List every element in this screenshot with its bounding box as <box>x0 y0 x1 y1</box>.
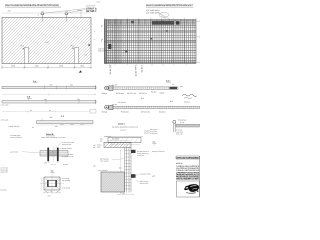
bottom small dimension <box>117 192 133 195</box>
svg-text:L=6: L=6 <box>46 41 49 44</box>
square detail dimensions <box>41 177 61 198</box>
logo sketch (eagle) <box>184 184 199 193</box>
squiggle sketch right of A-A <box>180 85 197 99</box>
square base plate detail <box>40 174 64 195</box>
mullion right annotation lower <box>136 172 151 184</box>
section band 2-C labels <box>1 115 65 128</box>
svg-text:84xxd: 84xxd <box>160 92 165 95</box>
Detail C label block <box>112 122 139 131</box>
dimension line under 2-A <box>2 93 96 95</box>
label 2-2 small <box>153 141 157 146</box>
anchor bolt detail right <box>173 118 200 132</box>
svg-text:PL1: PL1 <box>21 44 24 47</box>
svg-text:1650: 1650 <box>80 65 84 68</box>
vertical mullion column <box>125 147 136 192</box>
section A-A band <box>105 83 178 91</box>
anchor bolt annotations <box>150 128 183 135</box>
section band 2-C <box>32 118 93 129</box>
svg-text:scale panel mounting to concre: scale panel mounting to concrete <box>41 136 66 139</box>
grid bottom dark band <box>105 58 197 63</box>
dark infill cells top right <box>131 21 180 25</box>
scattered dark cells <box>108 30 168 52</box>
svg-text:84TGLS fix: 84TGLS fix <box>127 92 136 95</box>
grid left dark column <box>105 20 107 64</box>
small text left of title block <box>152 150 165 177</box>
svg-text:84TGD st: 84TGD st <box>139 92 147 95</box>
grid dense left zone <box>105 20 122 64</box>
svg-text:PL2: PL2 <box>71 44 74 47</box>
svg-text:NOTES:: NOTES: <box>176 162 183 165</box>
title left drawing <box>5 4 61 7</box>
svg-text:450: 450 <box>70 83 73 86</box>
svg-text:150: 150 <box>44 162 47 165</box>
svg-text:SETUP-1: SETUP-1 <box>86 10 97 13</box>
vertical dimension line left of column <box>120 149 121 193</box>
square base detail top dims <box>44 162 96 168</box>
left notes bottom-left <box>1 167 9 192</box>
svg-text:450: 450 <box>44 98 47 101</box>
center annotation in elevation <box>46 41 88 57</box>
Detail B label <box>41 133 66 139</box>
bracket detail 1 above elevation <box>41 12 44 18</box>
svg-text:450: 450 <box>77 98 80 101</box>
title right drawing <box>146 4 194 7</box>
slot right (post) <box>71 44 79 63</box>
svg-text:BAHA CACHA WINDOW SCREEN DETAI: BAHA CACHA WINDOW SCREEN DETAIL TYPE P-1… <box>146 4 194 7</box>
svg-text:450: 450 <box>50 116 53 119</box>
svg-text:WLxxx: WLxxx <box>151 90 156 93</box>
section marker flag upper <box>101 25 103 29</box>
svg-text:2250: 2250 <box>11 65 15 68</box>
slot left (post) <box>21 44 29 63</box>
notes lines <box>176 165 200 181</box>
Detail B assembly <box>40 146 68 163</box>
svg-text:BAHA CACHA UNIT 04 SCREEN: BAHA CACHA UNIT 04 SCREEN <box>177 157 200 160</box>
Detail C bar <box>100 136 143 144</box>
section band 2-B <box>1 98 97 107</box>
svg-text:150: 150 <box>48 195 51 198</box>
svg-text:450typ: 450typ <box>102 111 107 114</box>
north-arrow mark below elevation <box>79 70 82 72</box>
revision cloud <box>159 12 169 17</box>
right edge marks of elevation <box>88 30 95 46</box>
label 1-1 <box>51 170 55 173</box>
svg-text:84c: 84c <box>119 167 122 170</box>
svg-text:2-C: 2-C <box>61 115 65 118</box>
svg-text:1=6: 1=6 <box>84 54 87 57</box>
grid mid darker row <box>105 32 197 51</box>
square detail annotations right <box>57 177 70 189</box>
section marker flag lower <box>101 39 103 43</box>
section band 2-A label <box>33 80 38 83</box>
svg-text:~L: ~L <box>94 30 96 33</box>
label 1-1 below A-A <box>141 97 144 100</box>
grid top ticks <box>105 18 197 20</box>
svg-text:L angle (45.00): L angle (45.00) <box>8 125 20 128</box>
svg-text:750: 750 <box>8 10 11 13</box>
rotated labels below grid <box>109 64 144 77</box>
svg-text:BAHA CACHA WINDOW SCREEN INSTA: BAHA CACHA WINDOW SCREEN INSTALLATION DE… <box>5 4 59 7</box>
logo box <box>177 156 200 197</box>
svg-text:GL 84 TYP: GL 84 TYP <box>109 64 112 75</box>
left elevation panel (hatched wall) <box>2 18 91 64</box>
svg-text:1-1: 1-1 <box>141 97 144 100</box>
grid left annotation <box>98 47 107 52</box>
Detail B annotation right <box>54 141 96 158</box>
svg-text:2-1: 2-1 <box>170 100 173 103</box>
svg-text:7: 7 <box>101 25 103 29</box>
bottom dimension line of elevation <box>1 65 92 69</box>
top-right bold label block <box>86 1 101 13</box>
svg-text:84TGLS fix: 84TGLS fix <box>141 111 150 114</box>
section band 2-B label <box>27 96 32 101</box>
beam left annotation <box>97 143 102 148</box>
dimension line above left elevation <box>2 10 91 16</box>
bracket detail 2 above elevation <box>65 12 68 18</box>
texts below section A-A <box>102 90 165 95</box>
svg-text:P4Ta brkt: P4Ta brkt <box>121 111 129 114</box>
title block header bar <box>176 156 200 160</box>
section B-B band <box>105 100 200 110</box>
svg-text:DWG NO A-584-04 REV C SHEET 4: DWG NO A-584-04 REV C SHEET 4 <box>176 178 200 181</box>
svg-text:Detail C: Detail C <box>118 122 126 125</box>
grid right edge marks <box>197 20 200 64</box>
notes heading <box>176 162 183 165</box>
svg-text:~L: ~L <box>94 38 96 41</box>
steel beam section <box>104 135 131 148</box>
mullion stub lines in elevation <box>42 18 66 22</box>
mullion right annotation upper <box>137 150 150 157</box>
svg-text:bar frame assembly to window u: bar frame assembly to window unit <box>112 126 139 129</box>
svg-text:2650: 2650 <box>59 65 63 68</box>
Detail B annotation left <box>10 134 45 153</box>
mullion left annotation <box>100 157 125 162</box>
svg-text:GL 84 TYP A: GL 84 TYP A <box>135 64 138 77</box>
small label left of column <box>119 167 122 170</box>
curtain wall grid panel <box>105 20 197 64</box>
svg-text:450typ: 450typ <box>102 92 107 95</box>
leader lines to top-right label <box>44 9 86 18</box>
grid dense upper rows <box>105 20 197 27</box>
label A-A <box>166 79 171 82</box>
section band 2-A <box>2 83 96 90</box>
svg-text:appr: appr <box>152 176 156 178</box>
grid callout labels <box>146 9 170 20</box>
grid module mullions <box>116 20 185 64</box>
concrete upstand annotation <box>98 169 108 172</box>
svg-text:450: 450 <box>50 83 53 86</box>
svg-text:P4Ta brkt: P4Ta brkt <box>116 92 124 95</box>
ticks below grid <box>115 64 186 67</box>
dimension line under 2-B <box>2 109 96 113</box>
svg-text:7: 7 <box>101 39 103 43</box>
beam dimension <box>108 138 130 141</box>
svg-text:84xxd st: 84xxd st <box>159 111 166 114</box>
texts below section B-B <box>102 111 167 114</box>
svg-text:2350: 2350 <box>35 65 39 68</box>
svg-text:GL 84 X: GL 84 X <box>141 64 144 72</box>
concrete upstand block <box>101 172 125 192</box>
Detail C right note <box>144 130 150 135</box>
